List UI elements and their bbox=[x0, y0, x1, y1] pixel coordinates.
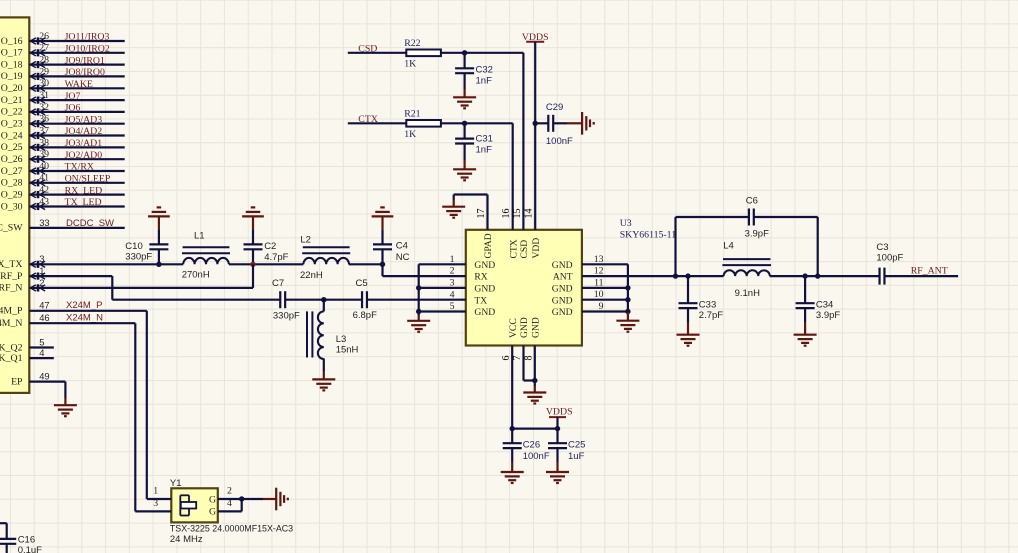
svg-text:39: 39 bbox=[39, 149, 49, 160]
svg-text:13: 13 bbox=[594, 254, 604, 265]
svg-text:24 MHz: 24 MHz bbox=[170, 534, 203, 545]
svg-text:O_25: O_25 bbox=[1, 142, 23, 153]
svg-text:O_23: O_23 bbox=[1, 119, 23, 130]
svg-text:C2: C2 bbox=[264, 241, 276, 252]
svg-text:O_19: O_19 bbox=[1, 71, 23, 82]
svg-text:47: 47 bbox=[39, 300, 49, 311]
svg-text:17: 17 bbox=[476, 209, 487, 219]
svg-text:R22: R22 bbox=[404, 38, 420, 49]
svg-text:RF_ANT: RF_ANT bbox=[911, 266, 948, 277]
svg-text:Y1: Y1 bbox=[170, 478, 182, 489]
svg-text:C34: C34 bbox=[816, 300, 833, 311]
svg-text:2: 2 bbox=[39, 277, 44, 288]
svg-text:6: 6 bbox=[501, 356, 512, 361]
svg-text:330pF: 330pF bbox=[125, 252, 152, 263]
svg-text:C7: C7 bbox=[272, 278, 284, 289]
svg-text:1nF: 1nF bbox=[476, 76, 493, 87]
svg-text:4: 4 bbox=[39, 347, 44, 358]
svg-text:R21: R21 bbox=[404, 108, 420, 119]
svg-text:TSX-3225 24.0000MF15X-AC3: TSX-3225 24.0000MF15X-AC3 bbox=[170, 523, 293, 534]
svg-text:4M_N: 4M_N bbox=[0, 318, 23, 329]
svg-text:10: 10 bbox=[594, 289, 604, 300]
svg-text:C10: C10 bbox=[125, 241, 142, 252]
svg-text:G: G bbox=[209, 494, 216, 505]
svg-text:C4: C4 bbox=[396, 241, 408, 252]
svg-text:GND: GND bbox=[552, 284, 573, 295]
svg-text:1nF: 1nF bbox=[476, 145, 493, 156]
svg-text:43: 43 bbox=[39, 196, 49, 207]
svg-text:G: G bbox=[209, 507, 216, 518]
svg-text:O_29: O_29 bbox=[1, 189, 23, 200]
svg-text:4.7pF: 4.7pF bbox=[264, 252, 288, 263]
svg-text:JO5/AD3: JO5/AD3 bbox=[65, 114, 103, 125]
svg-text:5: 5 bbox=[450, 301, 455, 312]
svg-text:ANT: ANT bbox=[553, 272, 573, 283]
svg-text:42: 42 bbox=[39, 185, 49, 196]
svg-text:JO11/IRQ3: JO11/IRQ3 bbox=[65, 32, 110, 43]
svg-text:GND: GND bbox=[474, 260, 495, 271]
svg-text:26: 26 bbox=[39, 31, 49, 42]
svg-text:O_20: O_20 bbox=[1, 83, 23, 94]
svg-text:O_16: O_16 bbox=[1, 36, 23, 47]
svg-text:GND: GND bbox=[552, 307, 573, 318]
svg-text:46: 46 bbox=[39, 312, 49, 323]
svg-text:1: 1 bbox=[153, 485, 158, 496]
svg-text:270nH: 270nH bbox=[182, 269, 210, 280]
svg-text:GND: GND bbox=[474, 307, 495, 318]
svg-text:JO7: JO7 bbox=[65, 91, 81, 102]
svg-text:L3: L3 bbox=[336, 334, 347, 345]
svg-text:O_27: O_27 bbox=[1, 166, 23, 177]
svg-text:RF_P: RF_P bbox=[0, 271, 23, 282]
svg-text:L1: L1 bbox=[194, 230, 205, 241]
svg-text:9: 9 bbox=[599, 301, 604, 312]
svg-text:X24M_P: X24M_P bbox=[66, 300, 102, 311]
svg-text:GND: GND bbox=[552, 295, 573, 306]
svg-text:C25: C25 bbox=[568, 440, 585, 451]
svg-text:GND: GND bbox=[474, 284, 495, 295]
svg-text:27: 27 bbox=[39, 43, 49, 54]
svg-text:TX: TX bbox=[474, 295, 487, 306]
svg-text:2: 2 bbox=[227, 485, 232, 496]
svg-text:1K: 1K bbox=[404, 58, 416, 69]
svg-text:2.7pF: 2.7pF bbox=[699, 310, 723, 321]
svg-text:U3: U3 bbox=[620, 218, 632, 229]
svg-text:JO3/AD1: JO3/AD1 bbox=[65, 138, 103, 149]
svg-text:12: 12 bbox=[594, 266, 604, 277]
svg-text:100pF: 100pF bbox=[876, 253, 903, 264]
svg-text:11: 11 bbox=[594, 277, 604, 288]
svg-text:9.1nH: 9.1nH bbox=[735, 288, 760, 299]
svg-text:NC: NC bbox=[396, 252, 410, 263]
svg-text:RX_LED: RX_LED bbox=[65, 185, 103, 196]
svg-text:C_SW: C_SW bbox=[0, 223, 23, 234]
svg-text:JO8/IRQ0: JO8/IRQ0 bbox=[65, 67, 105, 78]
svg-text:O_30: O_30 bbox=[1, 201, 23, 212]
svg-text:VCC: VCC bbox=[508, 318, 519, 338]
svg-text:1: 1 bbox=[39, 265, 44, 276]
svg-text:38: 38 bbox=[39, 137, 49, 148]
svg-text:O_18: O_18 bbox=[1, 59, 23, 70]
svg-text:DCDC_SW: DCDC_SW bbox=[66, 218, 114, 229]
svg-text:C5: C5 bbox=[356, 278, 368, 289]
svg-text:O_21: O_21 bbox=[1, 95, 23, 106]
svg-text:GND: GND bbox=[519, 317, 530, 338]
svg-text:C3: C3 bbox=[876, 242, 888, 253]
svg-text:C31: C31 bbox=[476, 134, 493, 145]
svg-text:3: 3 bbox=[450, 278, 455, 289]
svg-text:0.1uF: 0.1uF bbox=[18, 545, 42, 553]
svg-text:8: 8 bbox=[523, 356, 534, 361]
svg-text:O_28: O_28 bbox=[1, 178, 23, 189]
svg-text:22nH: 22nH bbox=[300, 270, 323, 281]
svg-text:29: 29 bbox=[39, 66, 49, 77]
svg-text:O_22: O_22 bbox=[1, 107, 23, 118]
svg-text:C16: C16 bbox=[18, 535, 35, 546]
svg-text:C6: C6 bbox=[746, 196, 758, 207]
svg-text:TX/RX: TX/RX bbox=[65, 162, 94, 173]
svg-text:100nF: 100nF bbox=[523, 451, 550, 462]
svg-text:X24M_N: X24M_N bbox=[66, 312, 103, 323]
svg-text:1K: 1K bbox=[404, 129, 416, 140]
svg-text:X_TX: X_TX bbox=[0, 259, 23, 270]
svg-text:C26: C26 bbox=[523, 440, 540, 451]
svg-text:RF_N: RF_N bbox=[0, 283, 23, 294]
svg-text:JO4/AD2: JO4/AD2 bbox=[65, 126, 103, 137]
svg-text:GND: GND bbox=[552, 260, 573, 271]
svg-text:CTX: CTX bbox=[508, 239, 519, 258]
svg-text:K_Q2: K_Q2 bbox=[0, 342, 23, 353]
svg-text:O_17: O_17 bbox=[1, 48, 23, 59]
svg-text:49: 49 bbox=[39, 371, 49, 382]
svg-text:VDD: VDD bbox=[531, 238, 542, 259]
svg-text:5: 5 bbox=[39, 336, 44, 347]
svg-text:16: 16 bbox=[501, 209, 512, 219]
svg-text:CSD: CSD bbox=[519, 240, 530, 259]
svg-text:100nF: 100nF bbox=[546, 136, 573, 147]
svg-text:GPAD: GPAD bbox=[483, 233, 494, 258]
svg-text:JO10/IRQ2: JO10/IRQ2 bbox=[65, 44, 110, 55]
svg-text:C32: C32 bbox=[476, 65, 493, 76]
svg-text:JO9/IRQ1: JO9/IRQ1 bbox=[65, 55, 105, 66]
svg-text:15nH: 15nH bbox=[336, 345, 359, 356]
svg-text:14: 14 bbox=[524, 209, 535, 219]
svg-text:36: 36 bbox=[39, 114, 49, 125]
svg-text:GND: GND bbox=[530, 317, 541, 338]
svg-text:30: 30 bbox=[39, 78, 49, 89]
svg-text:3: 3 bbox=[39, 253, 44, 264]
svg-text:3: 3 bbox=[153, 498, 158, 509]
svg-text:SKY66115-11: SKY66115-11 bbox=[620, 230, 677, 241]
svg-text:3.9pF: 3.9pF bbox=[745, 228, 769, 239]
svg-text:ON/SLEEP: ON/SLEEP bbox=[65, 174, 111, 185]
svg-text:EP: EP bbox=[11, 376, 23, 387]
svg-text:41: 41 bbox=[39, 173, 49, 184]
svg-text:VDDS: VDDS bbox=[546, 406, 573, 417]
svg-text:4M_P: 4M_P bbox=[0, 306, 23, 317]
svg-text:C29: C29 bbox=[546, 102, 563, 113]
svg-text:1: 1 bbox=[450, 254, 455, 265]
svg-text:JO2/AD0: JO2/AD0 bbox=[65, 150, 103, 161]
svg-text:330pF: 330pF bbox=[273, 311, 300, 322]
svg-text:28: 28 bbox=[39, 55, 49, 66]
svg-text:31: 31 bbox=[39, 90, 49, 101]
svg-text:JO6: JO6 bbox=[65, 103, 81, 114]
svg-text:3.9pF: 3.9pF bbox=[816, 310, 840, 321]
svg-text:33: 33 bbox=[39, 217, 49, 228]
svg-text:K_Q1: K_Q1 bbox=[0, 353, 23, 364]
svg-text:O_26: O_26 bbox=[1, 154, 23, 165]
svg-text:TX_LED: TX_LED bbox=[65, 197, 102, 208]
svg-text:RX: RX bbox=[474, 272, 487, 283]
svg-text:32: 32 bbox=[39, 102, 49, 113]
svg-text:C33: C33 bbox=[699, 300, 716, 311]
svg-text:4: 4 bbox=[450, 289, 455, 300]
svg-text:WAKE: WAKE bbox=[65, 79, 93, 90]
svg-text:1uF: 1uF bbox=[568, 451, 585, 462]
svg-text:O_24: O_24 bbox=[1, 130, 23, 141]
svg-text:L4: L4 bbox=[723, 240, 734, 251]
svg-text:15: 15 bbox=[512, 209, 523, 219]
svg-text:2: 2 bbox=[450, 266, 455, 277]
svg-text:L2: L2 bbox=[300, 235, 311, 246]
svg-text:37: 37 bbox=[39, 125, 49, 136]
svg-text:6.8pF: 6.8pF bbox=[353, 310, 377, 321]
svg-text:40: 40 bbox=[39, 161, 49, 172]
svg-text:7: 7 bbox=[512, 356, 523, 361]
